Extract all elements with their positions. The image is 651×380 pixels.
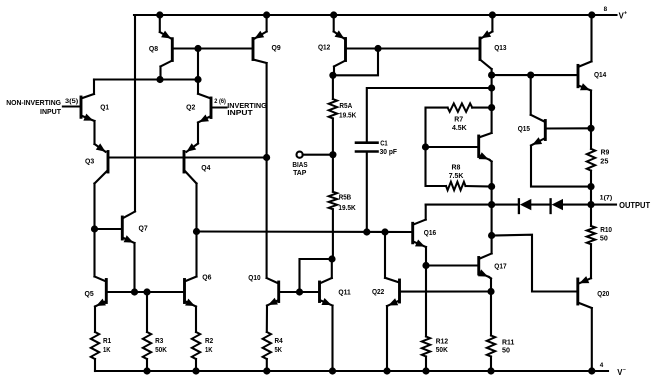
- node Q11 emitter rail junction: [329, 367, 336, 374]
- inverting input label: [227, 101, 267, 117]
- node Q8 base junction: [194, 45, 201, 52]
- wire R11 bottom: [490, 357, 492, 372]
- node Q20 collector rail junction: [588, 367, 595, 374]
- svg-text:50K: 50K: [436, 347, 448, 354]
- wire V+ rail: [134, 14, 617, 16]
- wire mirror base vertical: [197, 49, 199, 80]
- label R8: [449, 164, 464, 180]
- wire R9 top: [590, 128, 592, 149]
- label Q16: [424, 230, 436, 237]
- transistor Q1: [81, 80, 95, 145]
- V+ terminal label: [619, 11, 627, 21]
- svg-text:19.5K: 19.5K: [339, 113, 356, 120]
- transistor Q11: [320, 259, 333, 371]
- wire Q12 Q13 base: [378, 47, 480, 49]
- svg-text:Q20: Q20: [597, 291, 609, 298]
- label Q8: [149, 46, 158, 53]
- node R7 junction: [488, 104, 495, 111]
- node Q13 collector junction: [488, 72, 495, 79]
- wire Q12 base: [346, 47, 379, 49]
- capacitor C1: [356, 143, 378, 232]
- node R2 rail junction: [192, 367, 199, 374]
- transistor Q3: [107, 152, 110, 173]
- wire Q10 Q11 base: [279, 291, 320, 293]
- node R3 rail junction: [143, 367, 150, 374]
- node C1 bottom junction: [363, 228, 370, 235]
- wire diode middle: [531, 204, 550, 206]
- node Q22 collector junction: [381, 228, 388, 235]
- wire R5B to Q11 collector: [332, 209, 334, 259]
- svg-text:Q5: Q5: [85, 291, 94, 298]
- node R11 rail junction: [487, 367, 494, 374]
- node Q12 collector junction: [329, 72, 336, 79]
- wire output line left: [426, 204, 492, 206]
- wire R3 top: [146, 292, 148, 332]
- label Q1: [100, 104, 109, 111]
- pin 3(5) label: [65, 98, 78, 105]
- node Q7 emitter junction: [131, 288, 138, 295]
- node VBE base junction: [422, 143, 429, 150]
- transistor Q20: [578, 276, 592, 371]
- transistor Q7: [122, 15, 135, 292]
- svg-text:5K: 5K: [275, 347, 283, 354]
- transistor Q17: [478, 254, 492, 292]
- svg-text:Q14: Q14: [594, 72, 606, 79]
- wire R9 bottom: [590, 171, 592, 187]
- wire VBE base: [426, 146, 479, 148]
- resistor R2: [192, 332, 200, 371]
- label Q12: [318, 45, 330, 52]
- svg-text:R5B: R5B: [339, 195, 352, 202]
- wire Q3 Q4 base line: [108, 156, 267, 158]
- svg-text:Q3: Q3: [85, 158, 94, 165]
- node C1 top junction: [488, 84, 495, 91]
- node mirror base junction: [194, 76, 201, 83]
- transistor Q16: [413, 205, 426, 266]
- svg-text:Q12: Q12: [318, 45, 330, 52]
- transistor Q14: [578, 15, 592, 128]
- wire Q3 collector: [95, 170, 109, 229]
- wire Q15 base: [545, 127, 591, 129]
- label Q17: [494, 264, 506, 271]
- node second stage junction: [193, 228, 200, 235]
- node R3 junction: [143, 288, 150, 295]
- wire Q8 Q9 base: [172, 47, 253, 49]
- node output junction: [587, 201, 594, 208]
- wire R12 top: [425, 266, 427, 337]
- svg-text:50: 50: [600, 236, 608, 243]
- svg-text:8: 8: [604, 6, 608, 13]
- svg-text:R7: R7: [454, 117, 463, 124]
- label Q11: [338, 289, 350, 296]
- svg-text:NON-INVERTING: NON-INVERTING: [6, 98, 61, 107]
- resistor R5A: [329, 99, 337, 118]
- wire Q11 diode bracket: [300, 259, 332, 292]
- transistor Q4: [184, 152, 197, 232]
- svg-text:R12: R12: [436, 339, 448, 346]
- svg-text:50K: 50K: [155, 347, 167, 354]
- wire R7 left lead: [426, 108, 448, 147]
- wire Q12 collector to R5A: [332, 75, 334, 99]
- node bias tap junction: [329, 151, 336, 158]
- label R5B: [338, 195, 355, 212]
- wire collector bus: [94, 78, 199, 80]
- transistor Q12: [334, 15, 346, 75]
- transistor Q8: [160, 15, 173, 80]
- transistor Q5: [95, 229, 107, 332]
- node R8 junction: [488, 183, 495, 190]
- label 1(7): [600, 195, 613, 202]
- label Q3: [85, 158, 94, 165]
- resistor R7: [448, 103, 473, 111]
- label Q2: [186, 105, 195, 112]
- svg-text:1K: 1K: [103, 347, 111, 354]
- wire Q20 base bracket: [492, 235, 578, 292]
- node Q20 base junction: [488, 232, 495, 239]
- node Q8 collector junction: [156, 76, 163, 83]
- resistor R4: [263, 332, 271, 371]
- wire R12 bottom: [425, 357, 427, 372]
- node Q10 Q11 base junction: [296, 288, 303, 295]
- wire R8 left lead: [426, 147, 447, 186]
- wire Q2 emitter to Q4: [187, 143, 199, 152]
- transistor Q2: [198, 80, 211, 144]
- svg-text:R9: R9: [601, 150, 610, 157]
- svg-text:Q10: Q10: [248, 275, 260, 282]
- node Q15 collector junction: [527, 72, 534, 79]
- diode D2: [551, 199, 563, 213]
- wire V- rail: [95, 370, 608, 372]
- wire Q15 collector: [530, 75, 532, 115]
- label R4: [275, 338, 283, 354]
- label Q7: [139, 226, 148, 233]
- node Q8 emitter rail junction: [156, 11, 163, 18]
- svg-text:Q22: Q22: [372, 289, 384, 296]
- wire Q17 collector upper: [491, 205, 493, 254]
- wire inverting input: [211, 106, 227, 108]
- svg-text:Q13: Q13: [494, 45, 506, 52]
- svg-text:R3: R3: [155, 338, 163, 345]
- resistor R10: [587, 226, 595, 244]
- svg-text:7.5K: 7.5K: [449, 173, 464, 180]
- wire diode link: [492, 204, 519, 206]
- svg-text:Q8: Q8: [149, 46, 158, 53]
- resistor R3: [143, 332, 151, 371]
- label Q22: [372, 289, 384, 296]
- wire non-inverting input: [63, 105, 81, 107]
- svg-text:Q2: Q2: [186, 105, 195, 112]
- resistor R9: [587, 149, 595, 171]
- wire Q14 base line: [492, 74, 578, 76]
- pin 2(6) label: [214, 98, 226, 105]
- label Q6: [202, 275, 211, 282]
- label R11: [502, 339, 514, 354]
- svg-text:1(7): 1(7): [600, 195, 613, 202]
- wire C1 top line: [367, 88, 492, 142]
- label C1: [380, 141, 398, 156]
- label OUTPUT: [619, 201, 650, 210]
- svg-text:50: 50: [502, 347, 510, 354]
- svg-text:30 pF: 30 pF: [380, 149, 398, 156]
- svg-text:Q11: Q11: [338, 289, 350, 296]
- transistor Q15: [531, 115, 591, 187]
- label Q10: [248, 275, 260, 282]
- wire R5A to bias tap: [332, 118, 334, 154]
- label Q9: [272, 45, 281, 52]
- label R3: [155, 338, 167, 354]
- svg-text:R2: R2: [205, 338, 213, 345]
- svg-text:Q6: Q6: [202, 275, 211, 282]
- node Q9 collector junction: [263, 154, 270, 161]
- label R9: [600, 150, 609, 166]
- svg-text:R5A: R5A: [339, 103, 352, 110]
- svg-text:4: 4: [600, 362, 604, 369]
- wire Q7 base: [95, 228, 123, 230]
- pin 4 label: [600, 362, 604, 369]
- svg-text:Q16: Q16: [424, 230, 436, 237]
- V- terminal label: [617, 367, 626, 377]
- svg-text:2 (6): 2 (6): [214, 98, 226, 105]
- resistor R1: [91, 332, 99, 371]
- wire bias tap to R5B: [332, 155, 334, 192]
- node Q16 emitter junction: [422, 262, 429, 269]
- node Q22 emitter rail junction: [383, 367, 390, 374]
- resistor R8: [446, 182, 466, 190]
- node R12 rail junction: [422, 367, 429, 374]
- label R12: [436, 339, 448, 355]
- svg-text:25: 25: [600, 158, 608, 165]
- svg-text:Q17: Q17: [494, 264, 506, 271]
- svg-text:1K: 1K: [205, 347, 213, 354]
- svg-text:R11: R11: [502, 339, 514, 346]
- label Q15: [518, 126, 530, 133]
- transistor Q22: [385, 278, 400, 371]
- label Q5: [85, 291, 94, 298]
- svg-text:3(5): 3(5): [65, 98, 78, 105]
- label BIAS TAP: [292, 160, 307, 177]
- transistor Q6: [185, 232, 197, 333]
- node R9 emitter junction: [587, 183, 594, 190]
- wire second stage line: [197, 230, 413, 233]
- svg-text:−: −: [623, 367, 626, 373]
- wire Q22 collector: [384, 232, 386, 278]
- svg-text:R8: R8: [452, 164, 461, 171]
- node Q12 emitter rail junction: [330, 11, 337, 18]
- node Q14 emitter junction: [587, 125, 594, 132]
- resistor R5B: [329, 192, 337, 209]
- node Q9 emitter rail junction: [263, 11, 270, 18]
- svg-text:Q9: Q9: [272, 45, 281, 52]
- node Q13 emitter rail junction: [489, 11, 496, 18]
- svg-text:Q4: Q4: [201, 165, 210, 172]
- wire output stub: [591, 204, 616, 206]
- wire Q13 collector lower: [491, 187, 493, 205]
- label Q13: [494, 45, 506, 52]
- label R1: [103, 338, 111, 354]
- svg-text:R1: R1: [103, 338, 111, 345]
- node pin 8 junction: [588, 11, 595, 18]
- svg-text:Q7: Q7: [139, 226, 148, 233]
- wire R10 top: [590, 205, 592, 226]
- svg-text:Q1: Q1: [100, 104, 109, 111]
- label R10: [600, 227, 612, 243]
- non-inverting input label: [6, 98, 61, 116]
- label Q14: [594, 72, 606, 79]
- svg-text:Q15: Q15: [518, 126, 530, 133]
- wire R8 right lead: [466, 185, 492, 188]
- wire R7 right lead: [472, 107, 491, 109]
- wire Q1 emitter to Q3: [95, 143, 106, 151]
- label R2: [205, 338, 213, 354]
- label Q20: [597, 291, 609, 298]
- bias tap terminal: [297, 152, 330, 158]
- node Q12 base junction: [374, 45, 381, 52]
- wire Q17 base: [426, 264, 479, 266]
- node R4 rail junction: [263, 367, 270, 374]
- wire R10 bottom: [590, 244, 592, 278]
- node Q11 collector junction: [328, 255, 335, 262]
- svg-text:INPUT: INPUT: [40, 107, 61, 116]
- svg-text:19.5K: 19.5K: [338, 205, 355, 212]
- wire diode to output: [563, 204, 591, 206]
- wire R9 to output node: [590, 187, 592, 205]
- label Q4: [201, 165, 210, 172]
- wire Q5 Q6 base: [106, 291, 184, 293]
- node Q7 base junction: [91, 225, 98, 232]
- svg-text:C1: C1: [380, 141, 388, 148]
- pin 8 label: [604, 6, 608, 13]
- label R7: [452, 117, 467, 133]
- wire Q22 base: [400, 290, 492, 292]
- svg-text:4.5K: 4.5K: [452, 125, 467, 132]
- transistor Q10: [267, 158, 279, 333]
- wire Q12 base-collector bracket: [334, 49, 378, 76]
- transistor Q9: [253, 15, 267, 158]
- label R5A: [339, 103, 356, 120]
- resistor R11: [487, 336, 495, 357]
- diode D1: [519, 199, 531, 213]
- node output left junction: [488, 201, 495, 208]
- svg-text:R10: R10: [600, 227, 612, 234]
- svg-text:TAP: TAP: [293, 168, 306, 177]
- resistor R12: [422, 337, 430, 357]
- svg-text:INPUT: INPUT: [227, 108, 253, 117]
- wire R11 top: [490, 292, 492, 336]
- svg-text:R4: R4: [275, 338, 283, 345]
- svg-text:+: +: [624, 11, 627, 17]
- transistor VBE multiplier: [479, 133, 492, 187]
- node Q17 emitter junction: [487, 288, 494, 295]
- svg-text:OUTPUT: OUTPUT: [619, 201, 650, 210]
- transistor Q13: [480, 15, 492, 133]
